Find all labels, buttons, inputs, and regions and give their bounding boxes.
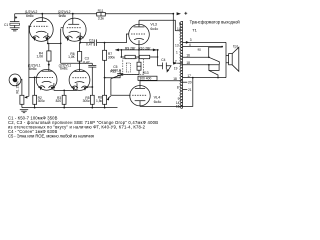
ground (C1)	[10, 28, 20, 31]
svg-text:8Ω: 8Ω	[198, 47, 201, 51]
svg-text:820: 820	[56, 99, 62, 103]
potentiometer R1	[16, 81, 29, 108]
node rail R5	[91, 107, 93, 109]
ground rail bottom	[22, 107, 118, 109]
pin 13	[175, 43, 179, 47]
resistor R11 on rail	[97, 9, 106, 21]
svg-text:6с4с: 6с4с	[150, 27, 158, 31]
tube VL1b (2/2)VL1	[59, 63, 90, 90]
resistor R10	[135, 47, 157, 59]
pin 18 left	[173, 77, 177, 81]
node pin4 link	[221, 46, 223, 48]
plus mark top right	[184, 12, 187, 15]
node VL1a grid R2	[34, 77, 36, 79]
svg-text:3,3к: 3,3к	[98, 16, 105, 20]
pin 8	[177, 85, 179, 89]
tube VL1a (1/2)VL1	[28, 64, 57, 91]
svg-text:R9 2Вт: R9 2Вт	[125, 47, 136, 51]
svg-text:6н8с: 6н8с	[29, 67, 37, 71]
wire VL4 plate to T1	[140, 80, 182, 82]
wire cathode line	[116, 49, 158, 51]
node bias left	[121, 56, 123, 58]
resistor R5	[83, 95, 95, 107]
svg-text:300к: 300к	[38, 99, 46, 103]
svg-text:VL4: VL4	[154, 96, 161, 100]
resistor R6	[68, 43, 82, 72]
wire VL1b grid stub	[86, 86, 93, 88]
svg-text:1: 1	[176, 50, 178, 54]
wire R8 wiper to VL4 grid	[110, 79, 112, 96]
wire R6 bottom node	[61, 62, 93, 64]
svg-text:Трансформатор выходной: Трансформатор выходной	[190, 20, 240, 25]
wire B+ top rail	[15, 13, 174, 15]
potentiometer R8	[96, 95, 111, 107]
node VL2b cathode	[79, 42, 81, 44]
node riser bottom wire	[192, 77, 194, 79]
svg-text:21: 21	[188, 88, 192, 92]
svg-text:300 400: 300 400	[139, 77, 151, 81]
switch link upper	[208, 47, 222, 65]
dashed option box	[123, 59, 144, 75]
node rail right	[172, 13, 174, 15]
capacitor C1	[4, 14, 19, 28]
capacitor C4	[158, 50, 171, 73]
arrow cathode right	[153, 49, 157, 52]
svg-text:300к: 300к	[108, 56, 116, 60]
value box 300 400	[138, 76, 157, 80]
transformer T1 axis	[182, 21, 184, 108]
wire VL2a cathode to VL2b grid	[48, 42, 61, 44]
svg-text:16: 16	[186, 53, 190, 57]
svg-text:13: 13	[175, 43, 179, 47]
resistor R7	[103, 43, 116, 96]
svg-text:R12: R12	[110, 70, 116, 74]
pin 3 wire speaker top	[183, 38, 227, 44]
pin 15	[176, 105, 180, 109]
node R6 VL1b plate	[79, 62, 81, 64]
pin 12	[175, 27, 181, 31]
pin 20	[182, 81, 191, 85]
svg-text:6с4с: 6с4с	[154, 100, 162, 104]
node cathode R4	[47, 43, 49, 45]
node rail-T2 plate	[72, 13, 74, 15]
speaker Gr1	[226, 45, 239, 72]
pin 17 wire bottom	[182, 74, 226, 78]
arrow B+ to pin2	[173, 62, 177, 65]
svg-text:1,0К: 1,0К	[68, 55, 75, 59]
pin 4 wire	[182, 43, 222, 47]
svg-text:8: 8	[177, 85, 179, 89]
pin 1	[176, 50, 178, 54]
capacitor C3	[83, 57, 96, 96]
svg-text:Т1: Т1	[192, 28, 197, 33]
tube VL3	[129, 20, 159, 57]
resistor R13	[137, 57, 149, 75]
pin 18 wire tap	[183, 61, 220, 65]
svg-text:6: 6	[179, 22, 181, 26]
pin 21	[182, 88, 191, 92]
wire B+ drop to T1	[172, 14, 174, 64]
node rail R2	[34, 107, 36, 109]
svg-text:6н8с: 6н8с	[60, 67, 68, 71]
svg-text:2: 2	[175, 60, 177, 64]
svg-text:3: 3	[190, 38, 192, 42]
node rail R3	[63, 107, 65, 109]
wire VL2b grid drop	[60, 29, 62, 64]
svg-text:С4: С4	[161, 58, 165, 62]
wire cathode to C2	[80, 42, 94, 44]
pin 19	[174, 66, 178, 70]
resistor R3	[56, 90, 66, 107]
input jack	[9, 74, 22, 95]
svg-text:300к: 300к	[83, 99, 91, 103]
node cathode VL3	[138, 49, 140, 51]
wire VL4 grid stub	[111, 94, 131, 96]
wire VL4 cathode bottom	[140, 78, 193, 107]
pin 9	[178, 97, 180, 101]
svg-text:1,0К: 1,0К	[36, 55, 43, 59]
switch link lower	[208, 64, 219, 78]
tube VL2a (1/2)VL2	[25, 10, 53, 43]
pin 14	[176, 101, 180, 105]
tube VL4	[130, 81, 162, 107]
svg-text:19: 19	[174, 66, 178, 70]
svg-text:17: 17	[187, 74, 191, 78]
svg-text:VL3: VL3	[150, 22, 157, 26]
arrow cathode left	[115, 49, 119, 52]
node R3 tap	[63, 90, 65, 92]
svg-text:R1 250к: R1 250к	[16, 81, 20, 94]
node R7 C5	[104, 77, 106, 79]
wire pin2 stub	[177, 62, 182, 64]
svg-text:20: 20	[188, 81, 192, 85]
pin 16 wire tap	[183, 53, 209, 57]
resistor R9	[121, 47, 136, 59]
wire R4 to VL1a plate	[48, 65, 50, 72]
svg-text:18: 18	[186, 61, 190, 65]
svg-text:C1: C1	[4, 23, 8, 27]
node R10 C4	[157, 56, 158, 57]
node rail-T1 plate	[41, 13, 43, 15]
resistor dashed variant	[126, 63, 130, 72]
svg-text:6н8с: 6н8с	[59, 14, 67, 18]
svg-text:R13: R13	[143, 71, 149, 75]
wire VL2a grid drop	[28, 26, 30, 97]
wire VL3 plate to T1	[139, 20, 175, 31]
node C2 R7	[104, 42, 106, 44]
svg-text:12: 12	[177, 27, 181, 31]
transformer T1 windings	[180, 21, 183, 108]
wire bias drop left	[120, 50, 122, 57]
wire cathode bus VL1	[54, 89, 77, 91]
ground symbol bottom	[20, 110, 28, 113]
svg-text:0,47: 0,47	[86, 42, 93, 46]
tube VL2b (2/2)VL2	[58, 10, 86, 43]
svg-text:4: 4	[189, 43, 191, 47]
capacitor C2	[86, 38, 105, 46]
node bias corner	[121, 74, 123, 76]
svg-text:Гр1: Гр1	[233, 45, 238, 49]
node R9 R10	[138, 56, 140, 58]
svg-text:18: 18	[173, 77, 177, 81]
node rail R8	[104, 107, 106, 109]
svg-text:6н8с: 6н8с	[26, 14, 34, 18]
resistor R2	[33, 77, 45, 107]
pin 6	[179, 22, 181, 26]
node R4 plate VL1a	[48, 64, 50, 66]
resistor R4	[36, 43, 51, 64]
wire bias to R8 wiper	[111, 75, 139, 79]
svg-text:С5 - Элна или ROE, можно любой: С5 - Элна или ROE, можно любой из наличи…	[8, 133, 94, 138]
arrow rail end	[177, 12, 181, 15]
wire C2 to VL3 grid	[105, 34, 129, 43]
node grid link	[60, 43, 62, 45]
svg-text:0,47: 0,47	[83, 60, 90, 64]
wire speaker vertical	[225, 42, 227, 77]
node VL1b stub	[91, 86, 93, 88]
node cathode line left	[121, 49, 123, 51]
node cathode line end	[157, 49, 159, 51]
svg-text:R11: R11	[98, 9, 104, 13]
capacitor C5	[105, 65, 124, 78]
svg-text:1,5к: 1,5к	[96, 99, 103, 103]
svg-text:15: 15	[176, 105, 180, 109]
svg-text:R10 2Вт: R10 2Вт	[138, 47, 151, 51]
